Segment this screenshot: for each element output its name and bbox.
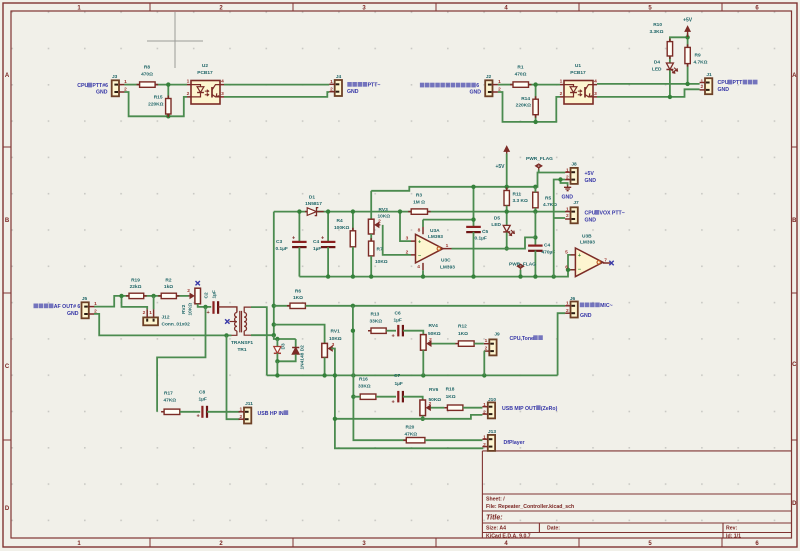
- no-connect X at U3B output: [609, 261, 613, 265]
- svg-text:U3A: U3A: [430, 228, 440, 234]
- wire audio node vertical: [273, 212, 275, 336]
- junction: [533, 185, 537, 189]
- svg-text:3: 3: [332, 342, 335, 348]
- wire U1 pin4 to J1 pin1: [597, 83, 700, 85]
- svg-text:TR1: TR1: [237, 347, 246, 353]
- svg-text:J5: J5: [82, 296, 88, 302]
- junction: [275, 373, 279, 377]
- junction: [552, 274, 556, 278]
- svg-text:+5V: +5V: [683, 18, 693, 24]
- net label USB HP IN: [258, 410, 289, 417]
- svg-text:J1: J1: [706, 72, 712, 78]
- wire U3A output run: [452, 237, 536, 248]
- wire R14 top lead: [535, 85, 537, 100]
- svg-text:D1: D1: [309, 194, 315, 200]
- wire decoupling bottom rail: [299, 255, 570, 277]
- svg-text:1µF: 1µF: [395, 381, 403, 387]
- resistor R5: [533, 189, 538, 211]
- svg-text:C4: C4: [544, 243, 550, 249]
- svg-text:220KΩ: 220KΩ: [148, 101, 163, 107]
- svg-text:2: 2: [330, 87, 333, 93]
- svg-text:D: D: [792, 501, 797, 507]
- wire D4 cathode down: [669, 70, 671, 97]
- svg-text:PTT: PTT: [733, 80, 744, 86]
- svg-text:USB MIP OUT: USB MIP OUT: [502, 406, 537, 412]
- junction: [668, 95, 672, 99]
- svg-text:KiCad E.D.A. 9.0.7: KiCad E.D.A. 9.0.7: [486, 534, 531, 540]
- junction: [369, 274, 373, 278]
- svg-text:2: 2: [566, 213, 569, 219]
- wire diode pair bottom loop: [277, 353, 295, 361]
- net label 加算機のPTT~: [347, 82, 380, 89]
- net label CPU Tone: [510, 335, 543, 342]
- svg-text:R1: R1: [517, 64, 523, 70]
- svg-text:2: 2: [406, 249, 409, 255]
- trimpot RV6: [420, 400, 432, 416]
- svg-text:J6: J6: [570, 296, 576, 302]
- wire J7 pin2 hook: [554, 217, 565, 219]
- wire PWR_FLAG stem lower: [520, 270, 522, 277]
- junction: [166, 114, 170, 118]
- no-connect X at TR1 center tap: [225, 319, 229, 323]
- wire C3 bottom lead: [298, 247, 300, 276]
- capacitor C4 470µF: [528, 246, 543, 251]
- svg-text:Conn_01x02: Conn_01x02: [162, 321, 191, 327]
- wire +5V branch to R10: [670, 37, 688, 41]
- PWR_FLAG symbol lower: [518, 264, 524, 270]
- svg-text:CPU: CPU: [718, 80, 729, 86]
- svg-text:GND: GND: [469, 89, 481, 95]
- wire RV3 wiper to U3A pin2: [383, 225, 411, 255]
- svg-text:Date:: Date:: [547, 526, 560, 532]
- resistor R9: [685, 44, 690, 66]
- svg-text:C3: C3: [276, 239, 282, 245]
- wire C4a bottom lead: [327, 247, 329, 276]
- wire attenuator rail: [267, 374, 558, 376]
- svg-text:Size: A4: Size: A4: [486, 526, 506, 532]
- wire gnd vertical J8-J7-rail: [554, 180, 561, 277]
- resistor R17: [161, 409, 183, 414]
- trimpot RV1: [322, 343, 334, 357]
- junction: [351, 395, 355, 399]
- wire J3 pin1 to R8: [124, 84, 139, 86]
- svg-text:4.7KΩ: 4.7KΩ: [543, 202, 557, 208]
- junction: [398, 209, 402, 213]
- wire D2 top lead: [295, 339, 297, 348]
- wire U3A pin8 up: [422, 220, 424, 227]
- svg-text:1µF: 1µF: [211, 290, 217, 298]
- svg-text:PWR_FLAG: PWR_FLAG: [526, 156, 553, 162]
- svg-text:R12: R12: [458, 323, 467, 329]
- svg-text:RV6: RV6: [429, 387, 439, 393]
- svg-text:2: 2: [483, 442, 486, 448]
- resistor R18: [444, 405, 466, 410]
- wire C5 +5V branch: [473, 187, 475, 228]
- svg-text:2: 2: [560, 91, 563, 97]
- svg-text:1kΩ: 1kΩ: [164, 284, 173, 290]
- connector J13: [482, 435, 495, 451]
- svg-text:22kΩ: 22kΩ: [130, 284, 142, 290]
- junction: [471, 185, 475, 189]
- net label CPUのVOX PTT~: [585, 210, 625, 217]
- svg-text:2: 2: [239, 414, 242, 420]
- junction: [297, 209, 301, 213]
- svg-text:GND: GND: [96, 89, 108, 95]
- title block: [482, 451, 791, 540]
- junction: [272, 333, 276, 337]
- resistor R16: [357, 394, 379, 399]
- svg-text:PWR_FLAG: PWR_FLAG: [509, 261, 536, 267]
- svg-text:PTT#6: PTT#6: [92, 83, 108, 89]
- resistor R13: [368, 328, 389, 333]
- junction: [533, 82, 537, 86]
- wire J12 pin1 riser: [153, 296, 155, 310]
- optocoupler U1: [564, 81, 593, 105]
- svg-text:CPU: CPU: [585, 211, 596, 217]
- wire R16 left: [353, 396, 360, 398]
- svg-text:R20: R20: [406, 424, 415, 430]
- svg-text:+: +: [197, 414, 200, 420]
- svg-text:LM393: LM393: [440, 265, 455, 271]
- svg-text:1: 1: [239, 407, 242, 413]
- svg-text:+: +: [392, 400, 395, 406]
- junction: [333, 373, 337, 377]
- svg-text:PCB17: PCB17: [570, 70, 586, 76]
- svg-text:1M Ω: 1M Ω: [413, 199, 425, 205]
- resistor R14: [533, 96, 538, 118]
- svg-text:RV1: RV1: [331, 328, 341, 334]
- svg-text:1: 1: [566, 206, 569, 212]
- svg-text:0.1µF: 0.1µF: [276, 246, 288, 252]
- net label 無線機のスケル制御から 6: [420, 83, 479, 90]
- svg-text:1: 1: [498, 79, 501, 85]
- svg-text:4: 4: [221, 79, 224, 85]
- junction: [326, 209, 330, 213]
- connector J4: [329, 80, 342, 96]
- svg-text:A: A: [5, 73, 10, 79]
- svg-text:GND: GND: [67, 311, 79, 317]
- svg-text:C: C: [792, 362, 797, 368]
- svg-text:50KΩ: 50KΩ: [428, 331, 441, 337]
- svg-text:R16: R16: [359, 376, 368, 382]
- svg-text:VOX PTT~: VOX PTT~: [600, 211, 625, 217]
- svg-text:R10: R10: [653, 22, 662, 28]
- svg-text:U1: U1: [575, 63, 581, 69]
- svg-text:470Ω: 470Ω: [141, 71, 153, 77]
- wire U1 pin3 to J1 pin2: [597, 89, 700, 97]
- wire RV1 top row: [274, 325, 325, 344]
- wire U3A pin4 down: [422, 270, 424, 276]
- resistor R11: [504, 188, 509, 209]
- svg-text:1: 1: [566, 301, 569, 307]
- junction: [471, 217, 475, 221]
- capacitor C3: [292, 242, 307, 247]
- svg-text:2: 2: [187, 91, 190, 97]
- svg-text:7: 7: [604, 257, 607, 263]
- svg-text:3.3 KΩ: 3.3 KΩ: [513, 198, 528, 204]
- wire J5 pin2 down: [94, 314, 232, 336]
- svg-text:3.3KΩ: 3.3KΩ: [650, 29, 664, 35]
- svg-text:47KΩ: 47KΩ: [164, 397, 177, 403]
- resistor R10: [667, 39, 672, 59]
- svg-text:2: 2: [187, 288, 190, 294]
- wire R4 top lead: [352, 212, 354, 231]
- svg-text:−: −: [418, 254, 421, 260]
- connector J9: [484, 339, 497, 355]
- svg-text:1: 1: [700, 78, 703, 84]
- svg-text:CPU,Tone: CPU,Tone: [510, 336, 535, 342]
- wire J10 pin2 gnd run: [335, 415, 483, 419]
- wire RV1 wiper down: [331, 349, 483, 449]
- svg-text:6: 6: [476, 83, 479, 89]
- svg-text:1µF: 1µF: [199, 396, 207, 402]
- wire RV6 bottom lead: [422, 416, 424, 419]
- junction: [272, 322, 276, 326]
- junction: [322, 373, 326, 377]
- svg-text:D3: D3: [281, 343, 287, 349]
- svg-text:GND: GND: [718, 87, 730, 93]
- svg-text:2: 2: [429, 401, 432, 407]
- PWR_FLAG symbol upper: [536, 164, 542, 170]
- svg-text:GND: GND: [580, 313, 592, 319]
- wire main VOX input line: [274, 211, 411, 213]
- trimpot RV4: [421, 335, 433, 351]
- svg-text:LED: LED: [491, 222, 501, 228]
- svg-text:1: 1: [187, 79, 190, 85]
- wire main to U3A pin3: [400, 212, 411, 242]
- wire D5 cathode lead: [506, 233, 508, 249]
- junction: [533, 235, 537, 239]
- wire R6 row from node: [274, 305, 290, 307]
- svg-text:J7: J7: [573, 200, 579, 206]
- svg-text:6: 6: [565, 264, 568, 270]
- wire primary gnd to J11 pin2: [227, 335, 240, 419]
- svg-text:10KΩ: 10KΩ: [375, 259, 388, 265]
- svg-text:J4: J4: [336, 74, 342, 80]
- transformer TR1: [230, 307, 252, 335]
- svg-text:+: +: [321, 236, 324, 242]
- svg-text:1: 1: [560, 79, 563, 85]
- connector J11: [239, 408, 252, 424]
- junction: [518, 274, 522, 278]
- svg-text:J13: J13: [488, 429, 496, 435]
- svg-text:B: B: [792, 218, 797, 224]
- svg-text:R18: R18: [446, 386, 455, 392]
- wire R5 top lead: [534, 187, 536, 192]
- svg-text:4.7KΩ: 4.7KΩ: [694, 59, 708, 65]
- svg-text:+5V: +5V: [495, 164, 505, 170]
- junction: [326, 274, 330, 278]
- wire R19 to R2: [144, 295, 162, 297]
- wire J2 pin1 to R1: [498, 84, 513, 86]
- svg-text:1: 1: [483, 434, 486, 440]
- junction: [471, 274, 475, 278]
- resistor R7: [369, 238, 374, 259]
- wire R15 bottom lead: [167, 114, 169, 117]
- svg-text:CPU: CPU: [77, 83, 88, 89]
- svg-text:33KΩ: 33KΩ: [358, 383, 371, 389]
- svg-text:RV4: RV4: [429, 323, 439, 329]
- svg-text:D5: D5: [494, 215, 500, 221]
- wire J2 pin2 bottom run: [498, 92, 560, 122]
- svg-text:U3C: U3C: [441, 258, 451, 264]
- svg-text:GND: GND: [562, 195, 574, 201]
- svg-text:1N4148 D2: 1N4148 D2: [300, 345, 306, 370]
- connector J10: [482, 402, 495, 418]
- wire RV3 top lead: [370, 191, 372, 219]
- capacitor C6: [398, 325, 403, 337]
- wire R13 to C6: [386, 330, 396, 332]
- wire R11 bottom lead: [506, 206, 508, 226]
- wire +5V rail: [371, 173, 565, 191]
- svg-text:4: 4: [594, 79, 597, 85]
- svg-text:C2: C2: [204, 292, 210, 298]
- diode D3: [274, 347, 281, 354]
- junction: [421, 373, 425, 377]
- capacitor C8: [202, 406, 207, 418]
- connector J2: [485, 80, 498, 96]
- wire +5V stem mid: [506, 154, 508, 191]
- svg-text:220KΩ: 220KΩ: [516, 103, 531, 109]
- wire RV2 node down to R17 row: [157, 307, 205, 412]
- net label USB MIC OUT: [502, 405, 558, 412]
- svg-text:1: 1: [330, 79, 333, 85]
- wire comparator output line: [428, 211, 566, 213]
- resistor R1: [510, 82, 532, 87]
- svg-text:C7: C7: [394, 373, 400, 379]
- resistor R3: [408, 209, 430, 214]
- wire C8 to J11: [207, 411, 240, 413]
- wire R15 top lead: [167, 85, 169, 99]
- svg-text:GND: GND: [347, 89, 359, 95]
- svg-text:C5: C5: [482, 229, 488, 235]
- svg-text:4: 4: [417, 264, 420, 270]
- resistor R4: [350, 228, 355, 250]
- svg-text:C4: C4: [313, 239, 319, 245]
- optocoupler U2: [191, 81, 220, 105]
- svg-text:A: A: [792, 73, 797, 79]
- svg-text:47KΩ: 47KΩ: [405, 431, 418, 437]
- svg-text:1KΩ: 1KΩ: [458, 331, 468, 337]
- wire C4a top lead: [327, 212, 329, 242]
- resistor R6: [287, 303, 308, 308]
- connector J12: [143, 309, 158, 325]
- svg-text:1KΩ: 1KΩ: [446, 394, 456, 400]
- wire J3 pin2 bottom run: [124, 92, 187, 116]
- svg-text:GND: GND: [585, 218, 597, 224]
- svg-text:USB HP IN: USB HP IN: [258, 411, 284, 417]
- svg-text:GND: GND: [585, 178, 597, 184]
- svg-text:TRANSF1: TRANSF1: [231, 340, 253, 346]
- wire R7 bottom lead: [370, 256, 372, 277]
- svg-text:B: B: [5, 218, 10, 224]
- svg-text:D: D: [5, 506, 10, 512]
- svg-text:2: 2: [124, 87, 127, 93]
- svg-text:2: 2: [498, 87, 501, 93]
- diode D2: [292, 348, 299, 355]
- junction: [505, 185, 509, 189]
- junction: [566, 268, 570, 272]
- junction: [685, 82, 689, 86]
- svg-text:C8: C8: [199, 389, 205, 395]
- wire J5 pin1 riser: [94, 296, 129, 307]
- connector J7: [565, 207, 578, 223]
- capacitor C4 1µF: [321, 242, 336, 247]
- resistor R8: [137, 82, 159, 87]
- svg-text:3: 3: [594, 91, 597, 97]
- svg-text:2: 2: [378, 218, 381, 224]
- wire C7 to RV6: [403, 397, 423, 400]
- junction: [685, 35, 689, 39]
- diode D1: [305, 208, 324, 216]
- resistor R19: [126, 293, 147, 298]
- svg-text:2: 2: [143, 310, 146, 316]
- junction: [275, 337, 279, 341]
- op-amp U3B: [575, 248, 603, 277]
- junction: [333, 417, 337, 421]
- junction: [558, 177, 562, 181]
- sheet origin crosshair: [147, 12, 203, 68]
- wire C4 bottom lead: [534, 251, 536, 277]
- svg-text:10KΩ: 10KΩ: [188, 303, 194, 316]
- wire U2 pin3 to J4 pin2: [224, 92, 329, 97]
- connector J1: [700, 78, 713, 94]
- svg-text:J3: J3: [112, 74, 118, 80]
- wire diode pair to rail: [276, 361, 278, 375]
- wire R8 to U2 pin1: [155, 84, 187, 86]
- svg-text:(ZeRo): (ZeRo): [541, 406, 558, 412]
- wire C3 top lead: [298, 212, 300, 242]
- connector J3: [112, 80, 125, 96]
- wire RV2 bottom out: [198, 304, 212, 307]
- svg-text:−: −: [578, 267, 581, 273]
- svg-text:100KΩ: 100KΩ: [334, 225, 349, 231]
- svg-text:+: +: [578, 253, 581, 259]
- wire RV6 wiper to R18: [431, 407, 445, 409]
- svg-text:1: 1: [94, 301, 97, 307]
- +5V power symbol mid: [504, 146, 510, 157]
- no-connect X at RV2 top: [196, 281, 200, 285]
- wire R16 to C7: [376, 396, 396, 398]
- junction: [533, 209, 537, 213]
- svg-text:U2: U2: [202, 63, 208, 69]
- wire C2 to TR1: [218, 307, 237, 313]
- svg-text:1: 1: [483, 402, 486, 408]
- net label 無線機のAF OUT# 6: [34, 304, 81, 311]
- svg-text:470Ω: 470Ω: [515, 71, 527, 77]
- junction: [533, 120, 537, 124]
- svg-text:1KΩ: 1KΩ: [293, 295, 303, 301]
- wire R5 bottom lead: [534, 208, 536, 212]
- capacitor C2: [214, 301, 219, 314]
- wire R1 to U1 pin1: [529, 84, 561, 86]
- wire U2 pin4 to J4 pin1: [224, 84, 329, 86]
- connector J5: [82, 302, 95, 318]
- wire D3 top lead: [276, 339, 278, 347]
- svg-text:R5: R5: [545, 195, 551, 201]
- op-amp U3A: [416, 234, 444, 263]
- svg-text:LED: LED: [652, 67, 662, 73]
- svg-text:File: Repeater_Controller.kica: File: Repeater_Controller.kicad_sch: [486, 504, 574, 510]
- svg-text:+: +: [392, 334, 395, 340]
- svg-text:1: 1: [566, 167, 569, 173]
- svg-text:1: 1: [485, 338, 488, 344]
- net label 加算機のMIC~: [580, 303, 613, 310]
- svg-text:U3B: U3B: [582, 233, 592, 239]
- wire R12 to J9: [474, 343, 484, 345]
- LED D5: [503, 225, 514, 235]
- junction: [421, 274, 425, 278]
